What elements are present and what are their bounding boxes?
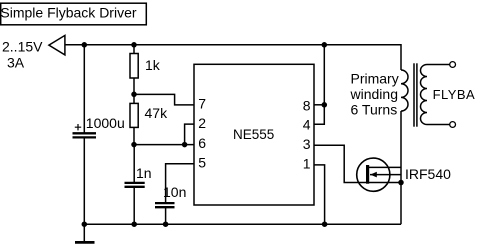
- transformer core: [414, 63, 417, 126]
- svg-text:2..15V: 2..15V: [2, 39, 43, 55]
- op-amp U1 NE555 box: [194, 64, 314, 205]
- svg-text:1: 1: [303, 156, 311, 172]
- svg-text:8: 8: [303, 97, 311, 113]
- wire pin8 stub: [314, 104, 324, 106]
- resistor R2 47k: [130, 103, 138, 127]
- capacitor C3 10n: [155, 203, 175, 207]
- svg-text:7: 7: [198, 96, 206, 112]
- svg-text:1k: 1k: [145, 57, 161, 73]
- svg-text:6 Turns: 6 Turns: [351, 102, 398, 118]
- resistor R1 1k: [130, 54, 138, 79]
- node junction rail-1n: [131, 221, 137, 227]
- node junction rail-10n: [163, 221, 169, 227]
- svg-text:1n: 1n: [136, 165, 152, 181]
- node junction 47k bottom: [131, 142, 137, 148]
- wire 1k top lead: [133, 45, 135, 54]
- wire pin1 to ground: [314, 165, 325, 224]
- node junction pin2-pin6: [182, 142, 188, 148]
- svg-text:4: 4: [303, 117, 311, 133]
- capacitor C1 1000u: [73, 124, 97, 137]
- node junction rail-pin1: [322, 221, 328, 227]
- wire secondary bottom lead: [427, 124, 450, 126]
- svg-text:FLYBA: FLYBA: [433, 87, 475, 102]
- wire drain-source channel: [400, 111, 402, 224]
- svg-text:winding: winding: [350, 86, 398, 102]
- svg-text:Simple Flyback Driver: Simple Flyback Driver: [0, 5, 136, 21]
- inductor L1 primary winding: [401, 70, 408, 111]
- node junction gate-source line: [398, 180, 404, 186]
- node junction pin8: [322, 102, 328, 108]
- wire pin7 connection: [134, 94, 194, 105]
- wire 1n bottom lead: [133, 187, 135, 224]
- svg-text:6: 6: [198, 135, 206, 151]
- wire trigger-threshold net: [134, 144, 194, 146]
- svg-text:47k: 47k: [145, 105, 169, 121]
- wire between 1k and 47k: [133, 78, 135, 103]
- input terminal arrow: [49, 35, 65, 55]
- wire pin5 connection: [166, 164, 194, 202]
- capacitor C2 1n: [125, 183, 145, 187]
- svg-text:IRF540: IRF540: [405, 166, 451, 182]
- node junction top-left: [82, 42, 88, 48]
- svg-text:1000u: 1000u: [86, 115, 125, 131]
- title box: [1, 3, 147, 25]
- wire vcc to pin8-pin4: [314, 45, 324, 125]
- svg-text:3: 3: [303, 136, 311, 152]
- terminal secondary bottom: [450, 122, 456, 128]
- node junction top right: [322, 42, 328, 48]
- wire bottom ground rail: [84, 223, 401, 225]
- wire 1n top lead: [133, 145, 135, 182]
- wire left rail upper: [83, 45, 85, 133]
- terminal secondary top: [450, 62, 456, 68]
- wire 10n bottom lead: [165, 207, 167, 224]
- node junction rail-left: [82, 221, 88, 227]
- ground symbol: [75, 224, 95, 242]
- svg-text:3A: 3A: [7, 55, 25, 71]
- svg-text:10n: 10n: [163, 184, 186, 200]
- wire pin2 bracket: [185, 124, 194, 145]
- wire pin3 to gate: [314, 145, 401, 182]
- node junction R1-R2: [131, 92, 137, 98]
- transistor Q1 IRF540: [357, 158, 401, 191]
- wire left rail lower: [83, 137, 85, 224]
- svg-text:5: 5: [198, 155, 206, 171]
- node junction top 1k: [131, 42, 137, 48]
- wire top supply rail: [65, 45, 401, 70]
- wire secondary top lead: [427, 64, 450, 66]
- svg-text:2: 2: [198, 115, 206, 131]
- inductor L2 secondary winding: [421, 65, 428, 125]
- svg-text:Primary: Primary: [351, 71, 399, 87]
- wire 47k bottom lead: [133, 127, 135, 144]
- svg-text:NE555: NE555: [233, 127, 274, 142]
